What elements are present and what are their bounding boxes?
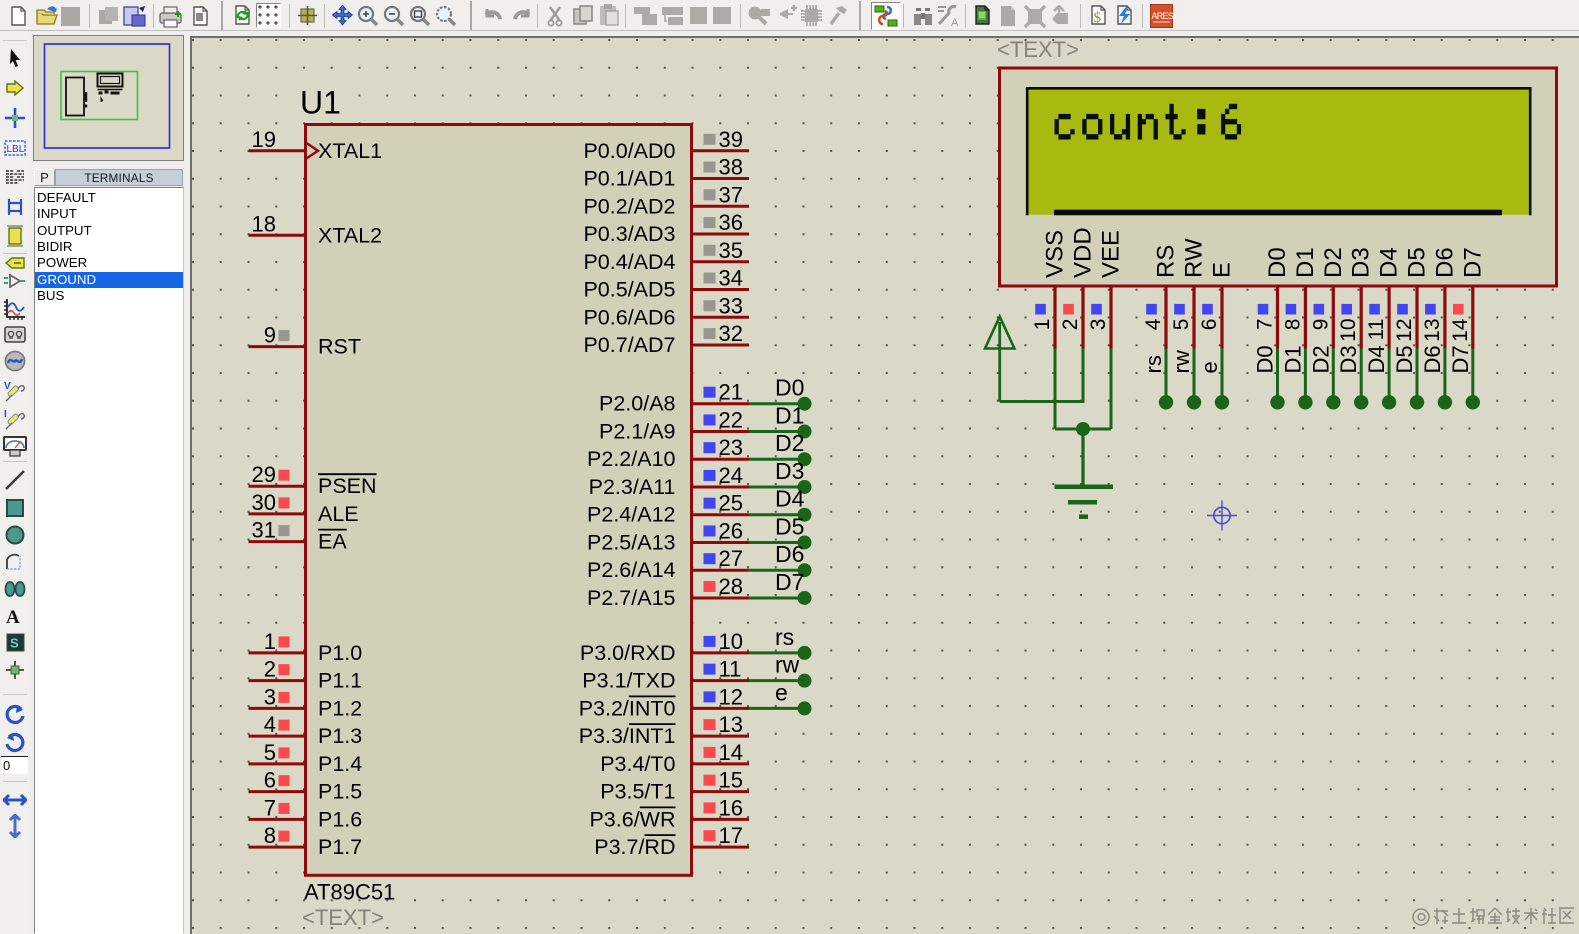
pin 17 P3.7/RD of U1 (right side) <box>594 823 749 859</box>
svg-text:D7: D7 <box>1459 247 1486 278</box>
svg-text:D3: D3 <box>1336 345 1361 373</box>
pin 13 P3.3/INT1 of U1 (right side) <box>579 712 749 748</box>
wire net D4 from pin 25 with junction <box>749 486 812 522</box>
pin 27 P2.6/A14 of U1 (right side) <box>587 546 749 582</box>
svg-text:1: 1 <box>1031 319 1054 331</box>
svg-text:11: 11 <box>719 657 742 682</box>
svg-text:D4: D4 <box>1376 247 1403 278</box>
svg-text:D6: D6 <box>1420 345 1445 373</box>
svg-text:P0.6/AD6: P0.6/AD6 <box>583 305 675 329</box>
wire net D2 from LCD pin 9 with junction <box>1308 345 1340 409</box>
pin 21 P2.0/A8 of U1 (right side) <box>599 380 749 416</box>
pin 36 P0.3/AD3 of U1 (right side) <box>583 210 749 246</box>
pin 7 D0 of LCD1 <box>1254 247 1292 348</box>
svg-text:P3.2/INT0: P3.2/INT0 <box>579 696 676 720</box>
svg-text:P2.5/A13: P2.5/A13 <box>587 531 675 555</box>
svg-text:P0.7/AD7: P0.7/AD7 <box>583 333 675 357</box>
svg-text:P0.0/AD0: P0.0/AD0 <box>583 139 675 163</box>
svg-text:D1: D1 <box>775 402 804 428</box>
svg-text:39: 39 <box>719 127 743 152</box>
wire VEE pin3 down <box>1110 349 1113 430</box>
pin 2 VDD of LCD1 <box>1059 227 1097 348</box>
svg-text:37: 37 <box>719 182 743 207</box>
svg-text:<TEXT>: <TEXT> <box>997 38 1079 62</box>
svg-text:29: 29 <box>252 462 276 487</box>
svg-text:D5: D5 <box>1404 247 1431 278</box>
svg-text:P1.7: P1.7 <box>318 835 362 859</box>
pin 25 P2.4/A12 of U1 (right side) <box>587 491 749 527</box>
wire VSS-VEE horizontal <box>1055 428 1111 431</box>
svg-text:D4: D4 <box>775 486 805 512</box>
svg-text:D2: D2 <box>1308 345 1333 373</box>
svg-text:P0.4/AD4: P0.4/AD4 <box>583 250 675 274</box>
svg-text:9: 9 <box>264 323 276 348</box>
pin 28 P2.7/A15 of U1 (right side) <box>587 574 749 610</box>
pin 11 P3.1/TXD of U1 (right side) <box>582 657 749 693</box>
svg-text:P2.3/A11: P2.3/A11 <box>589 475 676 499</box>
pin 14 D7 of LCD1 <box>1449 247 1487 348</box>
svg-text:D0: D0 <box>775 375 804 401</box>
svg-text:10: 10 <box>719 629 743 654</box>
ground symbol <box>1055 487 1114 517</box>
svg-text:3: 3 <box>264 684 276 709</box>
svg-text:<TEXT>: <TEXT> <box>302 905 384 930</box>
svg-text:P1.4: P1.4 <box>318 752 362 776</box>
svg-text:6: 6 <box>264 768 276 793</box>
svg-text:D3: D3 <box>775 458 804 484</box>
svg-text:5: 5 <box>1170 319 1193 331</box>
wire net D0 from pin 21 with junction <box>749 375 812 411</box>
svg-text:P1.1: P1.1 <box>318 669 362 693</box>
svg-text:S: S <box>10 636 19 651</box>
svg-text:A: A <box>6 607 20 625</box>
svg-text:P2.6/A14: P2.6/A14 <box>587 558 675 582</box>
pin 9 RST of U1 (left side) <box>249 323 362 359</box>
LCD screen <box>1026 87 1532 215</box>
svg-text:13: 13 <box>719 712 743 737</box>
svg-text:32: 32 <box>719 321 743 346</box>
watermark text <box>1413 908 1574 925</box>
wire net D6 from LCD pin 13 with junction <box>1420 345 1452 409</box>
wire net D5 from pin 26 with junction <box>749 514 812 550</box>
svg-text:34: 34 <box>719 266 743 291</box>
svg-text:P3.0/RXD: P3.0/RXD <box>580 641 676 665</box>
svg-text:25: 25 <box>719 491 743 516</box>
svg-text:P0.2/AD2: P0.2/AD2 <box>583 194 675 218</box>
svg-text:RW: RW <box>1181 238 1208 278</box>
pin 4 RS of LCD1 <box>1142 245 1180 349</box>
svg-text:D6: D6 <box>1431 247 1458 278</box>
svg-text:7: 7 <box>264 795 276 820</box>
svg-text:28: 28 <box>719 574 743 599</box>
svg-text:P1.3: P1.3 <box>318 724 362 748</box>
svg-text:RST: RST <box>318 335 361 359</box>
svg-text:D4: D4 <box>1364 345 1389 373</box>
svg-text:7: 7 <box>1254 319 1277 331</box>
pin 8 D1 of LCD1 <box>1281 247 1319 348</box>
svg-text:16: 16 <box>719 795 743 820</box>
pin 14 P3.4/T0 of U1 (right side) <box>600 740 749 776</box>
pin 8 P1.7 of U1 (left side) <box>249 823 363 859</box>
svg-text:P2.7/A15: P2.7/A15 <box>587 586 675 610</box>
wire VCC to VDD <box>1000 400 1085 403</box>
wire to ground <box>1081 429 1084 485</box>
pin 22 P2.1/A9 of U1 (right side) <box>599 407 749 443</box>
svg-text:12: 12 <box>719 684 743 709</box>
svg-text:rs: rs <box>775 624 794 650</box>
pin 37 P0.2/AD2 of U1 (right side) <box>583 182 749 218</box>
svg-text:D5: D5 <box>1392 345 1417 373</box>
svg-text:e: e <box>775 679 788 705</box>
wire net e from LCD pin 6 with junction <box>1197 349 1229 410</box>
placeholder label TEXT of LCD <box>997 37 1079 62</box>
svg-text:2: 2 <box>264 657 276 682</box>
svg-text:13: 13 <box>1421 319 1444 342</box>
svg-text:26: 26 <box>719 519 743 544</box>
pin 26 P2.5/A13 of U1 (right side) <box>587 519 749 555</box>
svg-text:P1.5: P1.5 <box>318 780 362 804</box>
power terminal VCC (up arrow) <box>985 317 1014 402</box>
value label AT89C51 <box>304 880 395 905</box>
svg-text:31: 31 <box>252 518 276 543</box>
svg-text:D2: D2 <box>1320 247 1347 278</box>
svg-text:XTAL2: XTAL2 <box>318 223 382 247</box>
pin 3 VEE of LCD1 <box>1087 230 1125 349</box>
junction node at ground wire <box>1076 422 1090 436</box>
pin 13 D6 of LCD1 <box>1421 247 1459 348</box>
svg-text:P2.4/A12: P2.4/A12 <box>587 503 675 527</box>
svg-text:P1.0: P1.0 <box>318 641 362 665</box>
svg-text:P3.5/T1: P3.5/T1 <box>600 780 675 804</box>
pin 29 PSEN of U1 (left side) <box>249 462 377 498</box>
wire net D1 from LCD pin 8 with junction <box>1280 345 1312 409</box>
left icon sidebar <box>0 31 30 934</box>
pin 10 P3.0/RXD of U1 (right side) <box>580 629 749 665</box>
svg-text:P0.1/AD1: P0.1/AD1 <box>583 167 675 191</box>
pin 23 P2.2/A10 of U1 (right side) <box>587 435 749 471</box>
pin 1 VSS of LCD1 <box>1031 230 1069 349</box>
svg-text:14: 14 <box>719 740 743 765</box>
pin 12 P3.2/INT0 of U1 (right side) <box>579 684 749 720</box>
pin 7 P1.6 of U1 (left side) <box>249 795 363 831</box>
svg-text:E: E <box>1209 262 1236 278</box>
LCD text count:6 <box>1055 104 1242 140</box>
pin 6 E of LCD1 <box>1198 262 1236 349</box>
svg-text:VSS: VSS <box>1042 230 1069 278</box>
svg-text:P2.1/A9: P2.1/A9 <box>599 419 676 443</box>
svg-text:D3: D3 <box>1348 247 1375 278</box>
wire net rs from pin 10 with junction <box>749 624 812 660</box>
svg-text:rs: rs <box>1141 355 1166 373</box>
pin 31 EA of U1 (left side) <box>249 518 348 554</box>
svg-text:$: $ <box>1094 10 1102 26</box>
wire net D5 from LCD pin 12 with junction <box>1392 345 1424 409</box>
pin 34 P0.5/AD5 of U1 (right side) <box>583 266 749 302</box>
svg-text:35: 35 <box>719 238 743 263</box>
wire net D6 from pin 27 with junction <box>749 541 812 577</box>
pin 4 P1.3 of U1 (left side) <box>249 712 363 748</box>
svg-text:10: 10 <box>1337 319 1360 342</box>
pin 10 D3 of LCD1 <box>1337 247 1375 348</box>
svg-text:P0.5/AD5: P0.5/AD5 <box>583 278 675 302</box>
svg-text:8: 8 <box>264 823 276 848</box>
svg-text:D7: D7 <box>775 569 804 595</box>
svg-text:e: e <box>1197 361 1222 373</box>
svg-text:36: 36 <box>719 210 743 235</box>
svg-text:4: 4 <box>264 712 276 737</box>
svg-text:18: 18 <box>252 211 276 236</box>
wire net D3 from pin 24 with junction <box>749 458 812 494</box>
wire net D4 from LCD pin 11 with junction <box>1364 345 1396 409</box>
wire VDD pin2 down <box>1082 349 1085 402</box>
svg-text:D6: D6 <box>775 541 804 567</box>
svg-text:21: 21 <box>719 380 743 405</box>
svg-text:14: 14 <box>1449 318 1472 342</box>
wire net D0 from LCD pin 7 with junction <box>1253 345 1285 409</box>
pin 24 P2.3/A11 of U1 (right side) <box>589 463 749 499</box>
pin 6 P1.5 of U1 (left side) <box>249 768 363 804</box>
svg-text:8: 8 <box>1281 319 1304 331</box>
wire net e from pin 12 with junction <box>749 679 812 715</box>
wire net D2 from pin 23 with junction <box>749 430 812 466</box>
wire net D1 from pin 22 with junction <box>749 402 812 438</box>
svg-text:rw: rw <box>1169 350 1194 373</box>
svg-text:3: 3 <box>1087 319 1110 331</box>
svg-text:5: 5 <box>264 740 276 765</box>
svg-text:38: 38 <box>719 155 743 180</box>
svg-text:RS: RS <box>1153 245 1180 278</box>
pin 39 P0.0/AD0 of U1 (right side) <box>583 127 749 163</box>
svg-text:15: 15 <box>719 768 743 793</box>
svg-text:P3.4/T0: P3.4/T0 <box>600 752 675 776</box>
pin 15 P3.5/T1 of U1 (right side) <box>600 768 749 804</box>
wire net D7 from LCD pin 14 with junction <box>1448 345 1480 409</box>
svg-text:22: 22 <box>719 407 743 432</box>
LCD module LCD1 body <box>1000 68 1557 286</box>
pin 33 P0.6/AD6 of U1 (right side) <box>583 293 749 329</box>
pin 30 ALE of U1 (left side) <box>249 490 359 526</box>
svg-text:EA: EA <box>318 530 347 554</box>
microcontroller U1 AT89C51 body <box>306 125 692 876</box>
pin 19 XTAL1 of U1 (left side) <box>249 127 383 163</box>
left object panel <box>30 31 190 934</box>
svg-text:P2.2/A10: P2.2/A10 <box>587 447 675 471</box>
svg-text:P3.1/TXD: P3.1/TXD <box>582 669 675 693</box>
pin 38 P0.1/AD1 of U1 (right side) <box>583 155 749 191</box>
wire net D3 from LCD pin 10 with junction <box>1336 345 1368 409</box>
pin 5 RW of LCD1 <box>1170 238 1208 348</box>
svg-text:U1: U1 <box>300 85 341 121</box>
svg-text:P3.7/RD: P3.7/RD <box>594 835 675 859</box>
svg-text:LBL: LBL <box>7 144 25 155</box>
svg-text:AT89C51: AT89C51 <box>304 880 395 905</box>
reference label U1 <box>300 85 341 121</box>
pin 32 P0.7/AD7 of U1 (right side) <box>583 321 749 357</box>
svg-text:D2: D2 <box>775 430 804 456</box>
svg-text:24: 24 <box>719 463 743 488</box>
svg-text:19: 19 <box>252 127 276 152</box>
pin 5 P1.4 of U1 (left side) <box>249 740 363 776</box>
svg-text:D0: D0 <box>1253 345 1278 373</box>
svg-text:A: A <box>951 17 959 28</box>
wire net D7 from pin 28 with junction <box>749 569 812 605</box>
svg-text:XTAL1: XTAL1 <box>318 139 382 163</box>
svg-text:D5: D5 <box>775 514 804 540</box>
pin 11 D4 of LCD1 <box>1365 247 1403 348</box>
svg-text:23: 23 <box>719 435 743 460</box>
svg-text:P0.3/AD3: P0.3/AD3 <box>583 222 675 246</box>
svg-text:P2.0/A8: P2.0/A8 <box>599 392 676 416</box>
wire net rw from pin 11 with junction <box>749 652 812 688</box>
svg-text:rw: rw <box>775 652 800 678</box>
svg-text:4: 4 <box>1142 318 1165 330</box>
pin 16 P3.6/WR of U1 (right side) <box>589 795 749 831</box>
svg-text:D1: D1 <box>1280 345 1305 373</box>
svg-text:2: 2 <box>1059 319 1082 331</box>
pin 35 P0.4/AD4 of U1 (right side) <box>583 238 749 274</box>
svg-text:11: 11 <box>1365 319 1388 341</box>
wire VSS pin1 down <box>1054 349 1057 430</box>
svg-text:D1: D1 <box>1292 247 1319 278</box>
svg-text:27: 27 <box>719 546 743 571</box>
svg-text:1: 1 <box>264 629 276 654</box>
placeholder label TEXT of U1 <box>302 905 384 930</box>
svg-text:30: 30 <box>252 490 276 515</box>
svg-text:17: 17 <box>719 823 743 848</box>
svg-text:D0: D0 <box>1264 247 1291 278</box>
toolbar <box>0 0 1579 31</box>
wire net rs from LCD pin 4 with junction <box>1141 349 1173 410</box>
wire net rw from LCD pin 5 with junction <box>1169 349 1201 410</box>
svg-text:VDD: VDD <box>1070 227 1097 278</box>
svg-text:D7: D7 <box>1448 345 1473 373</box>
svg-text:6: 6 <box>1198 319 1221 331</box>
svg-text:P3.3/INT1: P3.3/INT1 <box>579 724 676 748</box>
svg-text:P1.2: P1.2 <box>318 696 362 720</box>
svg-text:ARES: ARES <box>1152 11 1174 21</box>
pin 2 P1.1 of U1 (left side) <box>249 657 363 693</box>
svg-text:P3.6/WR: P3.6/WR <box>589 807 675 831</box>
pin 1 P1.0 of U1 (left side) <box>249 629 363 665</box>
svg-text:12: 12 <box>1393 319 1416 342</box>
pin 12 D5 of LCD1 <box>1393 247 1431 348</box>
svg-text:I: I <box>4 409 7 420</box>
svg-text:P1.6: P1.6 <box>318 807 362 831</box>
svg-text:PSEN: PSEN <box>318 474 377 498</box>
pin 3 P1.2 of U1 (left side) <box>249 684 363 720</box>
pin 9 D2 of LCD1 <box>1309 247 1347 348</box>
origin marker (blue crosshair) <box>1207 501 1237 531</box>
svg-text:9: 9 <box>1309 319 1332 331</box>
svg-text:ALE: ALE <box>318 502 359 526</box>
svg-text:33: 33 <box>719 293 743 318</box>
pin 18 XTAL2 of U1 (left side) <box>249 211 383 247</box>
svg-text:VEE: VEE <box>1098 230 1125 278</box>
